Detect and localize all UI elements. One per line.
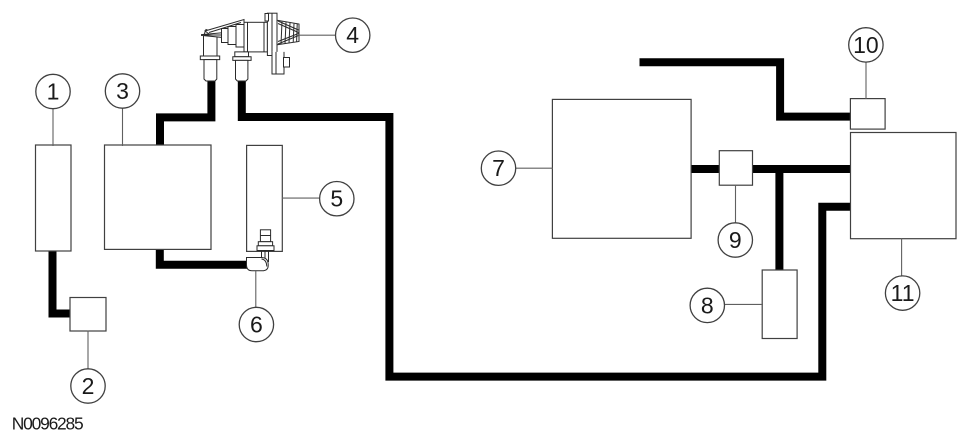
svg-text:7: 7 — [492, 155, 505, 181]
callout 4 — [336, 18, 370, 52]
svg-text:4: 4 — [346, 22, 359, 48]
component 8 box — [762, 270, 797, 339]
leader line to callout 1 — [52, 109, 54, 147]
component 7 box — [552, 99, 691, 238]
main body — [244, 22, 267, 52]
leader line to callout 11 — [901, 238, 903, 276]
callout 9 — [718, 223, 752, 257]
svg-text:3: 3 — [116, 78, 129, 104]
right port tube — [235, 52, 249, 57]
svg-text:5: 5 — [330, 186, 343, 212]
leader line to callout 9 — [735, 185, 737, 223]
callout 7 — [481, 151, 515, 185]
component 2 box — [70, 298, 106, 332]
callout 11 — [885, 276, 919, 310]
svg-text:N0096285: N0096285 — [12, 414, 83, 434]
component 11 box — [851, 133, 957, 239]
leader line to callout 5 — [282, 197, 320, 199]
component 1 box — [36, 145, 72, 251]
leader line to callout 7 — [516, 167, 553, 169]
callout 6 — [239, 307, 273, 341]
hose top right elbow to component 10 — [640, 62, 852, 116]
leader line to callout 3 — [122, 108, 124, 146]
fitting 6 below component 5 — [247, 230, 275, 271]
ribbed connector — [277, 20, 299, 45]
callout 2 — [71, 369, 105, 403]
svg-text:9: 9 — [729, 227, 742, 253]
component 3 box — [105, 145, 212, 249]
callout 10 — [849, 28, 883, 62]
nozzle cone steps — [222, 29, 229, 43]
needle tip — [202, 33, 223, 38]
hose from component 4 left port to component 3 — [160, 74, 211, 146]
callout 3 — [105, 74, 139, 108]
component 9 box — [719, 151, 752, 186]
component 5 box — [247, 145, 283, 251]
callout 1 — [36, 74, 70, 108]
svg-text:2: 2 — [82, 373, 95, 399]
svg-text:11: 11 — [891, 280, 915, 306]
slanted elbow tube to body — [205, 20, 244, 37]
callout 8 — [690, 288, 724, 322]
leader line to callout 4 — [298, 34, 336, 36]
leader line to callout 6 — [255, 271, 257, 308]
left port tube — [204, 30, 218, 57]
lower bracket — [272, 52, 284, 74]
hose from component 3 bottom to fitting 6 — [160, 248, 252, 265]
hose from component 7 through valve 9 to component 11 — [689, 165, 852, 173]
leader line to callout 10 — [865, 62, 867, 99]
svg-text:10: 10 — [853, 32, 879, 58]
leader line to callout 8 — [725, 303, 764, 305]
svg-text:6: 6 — [250, 312, 263, 338]
svg-text:8: 8 — [701, 292, 714, 318]
hose from component 1 to component 2 — [53, 250, 72, 314]
component 10 box — [850, 99, 885, 130]
callout 5 — [320, 182, 354, 216]
flange plate — [267, 13, 277, 55]
svg-text:1: 1 — [47, 79, 60, 105]
hose from junction down to component 8 — [775, 166, 783, 271]
component 4 purge valve — [200, 13, 299, 81]
leader line to callout 2 — [87, 331, 89, 370]
hose from component 4 right port across bottom up to component 11 — [242, 74, 851, 377]
